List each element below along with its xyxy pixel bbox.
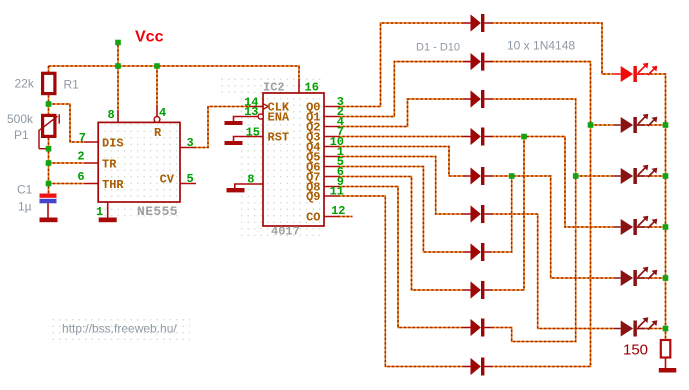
wire D6 to LED6 — [491, 214, 613, 329]
potentiometer P1 — [43, 115, 55, 136]
wire R1 top — [48, 66, 50, 72]
4017 pin stubs — [249, 79, 338, 217]
svg-text:C1: C1 — [17, 183, 33, 197]
LED 5 — [613, 267, 657, 286]
grid dots web label — [50, 317, 190, 340]
svg-text:4017: 4017 — [271, 225, 300, 239]
grid dots left of IC2 — [240, 93, 263, 237]
svg-text:8: 8 — [108, 108, 115, 122]
svg-text:22k: 22k — [15, 77, 35, 91]
wire node to DIS — [49, 104, 85, 142]
svg-text:R: R — [154, 126, 162, 140]
4017 pin8 ground — [235, 184, 263, 188]
grid dots below IC2 — [263, 226, 324, 238]
resistor 150 — [661, 340, 671, 358]
4017 RST ground — [234, 137, 264, 142]
svg-text:13: 13 — [244, 105, 258, 119]
4017 ENA inversion bubble — [258, 114, 263, 119]
node junction (665.5,125) — [663, 122, 669, 128]
node junction (524,136.5) — [521, 134, 527, 140]
capacitor C1 plates — [40, 194, 57, 198]
svg-text:500k: 500k — [7, 112, 34, 126]
svg-text:3: 3 — [187, 136, 194, 150]
wire Q6 to D7 — [338, 167, 463, 253]
svg-text:5: 5 — [187, 172, 194, 186]
svg-text:RST: RST — [268, 131, 290, 145]
svg-text:P1: P1 — [14, 128, 29, 142]
wire Q9 to D10 — [338, 196, 463, 367]
diode D2 1N4148 — [463, 53, 492, 71]
svg-text:R1: R1 — [64, 78, 80, 92]
node junction (48.5,163) — [46, 160, 52, 166]
NE555 pin1 ground — [99, 218, 117, 223]
node junction (665.5,278) — [663, 275, 669, 281]
wire R1-P1 — [48, 95, 50, 114]
diode D4 1N4148 — [463, 128, 492, 146]
svg-text:16: 16 — [305, 81, 319, 95]
wire NE555 out to CLK — [194, 107, 249, 148]
svg-text:15: 15 — [246, 125, 260, 139]
LED 3 — [613, 165, 657, 184]
diode D5 1N4148 — [463, 167, 492, 185]
node junction (575.7,176) — [573, 173, 579, 179]
svg-text:IC2: IC2 — [263, 81, 285, 95]
svg-text:Vcc: Vcc — [135, 29, 164, 46]
svg-text:CO: CO — [306, 211, 320, 225]
svg-text:THR: THR — [102, 178, 124, 192]
svg-text:10 x 1N4148: 10 x 1N4148 — [507, 39, 575, 53]
wire Q4 to D5 — [338, 147, 463, 177]
wire CO stub — [338, 216, 353, 218]
wire Vcc rail — [49, 66, 300, 79]
wire P1-C1 — [48, 138, 50, 194]
svg-text:TR: TR — [102, 158, 117, 172]
diode D10 1N4148 — [463, 358, 492, 376]
wire D3/D9 to LED3 — [491, 99, 613, 342]
wire D4/D8 to LED4 — [491, 137, 613, 291]
diode D9 1N4148 — [463, 319, 492, 337]
wire D5/D7 to LED5 — [491, 176, 613, 278]
svg-text:4: 4 — [159, 106, 166, 120]
svg-text:D1 - D10: D1 - D10 — [416, 42, 460, 54]
wire Vcc stub / NE555 pin8 net — [117, 45, 119, 110]
4017 CLK edge triangle — [263, 104, 268, 110]
wire Q5 to D6 — [338, 157, 463, 215]
svg-text:1: 1 — [96, 205, 103, 219]
IC2 4017 box — [263, 93, 324, 226]
LED 6 — [613, 317, 657, 336]
LED 4 — [613, 216, 657, 235]
wire D1 to LED1 — [491, 23, 613, 74]
diode D3 1N4148 — [463, 90, 492, 108]
node junction (48.5,104) — [46, 101, 52, 107]
NE555 pin stubs — [84, 105, 196, 218]
grid dots NE555 bottom labels — [95, 202, 180, 218]
svg-text:11: 11 — [330, 184, 344, 198]
svg-text:1µ: 1µ — [18, 200, 32, 214]
capacitor C1 lead + ground — [47, 203, 49, 217]
node junction (48.5,183.5) — [46, 181, 52, 187]
svg-text:7: 7 — [79, 131, 86, 145]
node junction (118,42.5) — [115, 40, 121, 46]
op IC1 NE555 box — [98, 122, 180, 202]
LED 2 — [613, 114, 657, 133]
node junction (118,66) — [115, 63, 121, 69]
diode D1 1N4148 — [463, 14, 492, 32]
node junction (665.5,227) — [663, 224, 669, 230]
NE555 pin4 inversion bubble — [154, 117, 160, 123]
svg-text:12: 12 — [331, 204, 345, 218]
node junction (665.5,328.5) — [663, 326, 669, 332]
resistor R1 — [43, 73, 55, 93]
wire Q3 to D4 — [338, 136, 463, 138]
svg-text:Q9: Q9 — [306, 190, 320, 204]
grid dots above IC2 — [218, 78, 324, 93]
wire Q7 to D8 — [338, 177, 463, 291]
node junction (665.5,176) — [663, 173, 669, 179]
node junction (157,66) — [154, 63, 160, 69]
4017 ENA ground — [234, 117, 259, 122]
svg-text:NE555: NE555 — [137, 204, 178, 219]
wire node to THR — [49, 183, 85, 185]
diode D7 1N4148 — [463, 243, 492, 261]
wire Q2 to D3 — [338, 99, 463, 127]
wire D2/D10 to LED2 — [491, 62, 613, 367]
diode D6 1N4148 — [463, 205, 492, 223]
wire Q1 to D2 — [338, 62, 463, 117]
wire node to TR — [49, 162, 85, 164]
wire Q0 to D1 — [338, 23, 463, 107]
svg-text:CV: CV — [160, 173, 175, 187]
svg-text:6: 6 — [77, 170, 84, 184]
wire NE555 pin4 net — [156, 66, 158, 105]
node junction (48.5,148.7) — [46, 146, 52, 152]
node junction (511.7,176) — [509, 173, 515, 179]
node junction (590.5,125) — [588, 122, 594, 128]
svg-text:http://bss.freeweb.hu/: http://bss.freeweb.hu/ — [62, 321, 177, 335]
150 resistor ground — [665, 358, 667, 368]
diode D8 1N4148 — [463, 281, 492, 299]
wire LED cathode bus — [637, 74, 666, 339]
svg-text:DIS: DIS — [102, 137, 124, 151]
svg-text:8: 8 — [247, 173, 254, 187]
svg-text:2: 2 — [77, 150, 84, 164]
svg-text:ENA: ENA — [268, 111, 290, 125]
wire Q8 to D9 — [338, 187, 463, 328]
P1 wiper — [39, 114, 59, 148]
svg-text:150: 150 — [623, 342, 648, 359]
LED 1 — [613, 63, 657, 82]
